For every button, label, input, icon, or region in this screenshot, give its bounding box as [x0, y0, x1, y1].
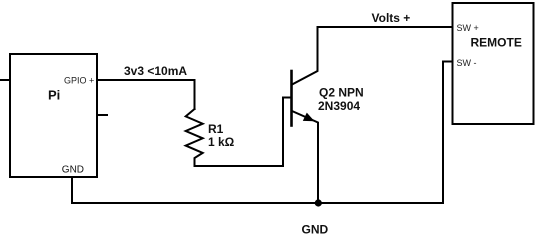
- Pi left pin stub: [1, 79, 10, 81]
- wire SW- down to ground rail: [443, 62, 453, 204]
- svg-text:Volts +: Volts +: [372, 11, 411, 25]
- svg-text:1 kΩ: 1 kΩ: [208, 135, 235, 149]
- svg-text:REMOTE: REMOTE: [471, 36, 522, 50]
- svg-text:GPIO +: GPIO +: [64, 76, 94, 86]
- wire resistor to transistor base: [195, 98, 292, 167]
- transistor Q2 emitter arrowhead: [303, 113, 315, 122]
- REMOTE box: [453, 3, 534, 124]
- resistor R1: [186, 109, 203, 166]
- wire GPIO to resistor R1: [97, 80, 195, 109]
- ground rail wire from Pi GND: [72, 177, 443, 203]
- svg-text:GND: GND: [62, 165, 84, 176]
- Pi right pin stub: [97, 114, 107, 116]
- svg-text:3v3 <10mA: 3v3 <10mA: [124, 64, 187, 78]
- svg-text:Pi: Pi: [48, 88, 60, 103]
- junction node at emitter and ground rail: [315, 199, 322, 206]
- transistor Q2 emitter lead with arrow: [292, 111, 318, 203]
- transistor Q2 collector lead: [292, 27, 318, 85]
- Pi module box U? (Raspberry Pi): [10, 54, 97, 177]
- svg-text:Q2 NPN: Q2 NPN: [319, 86, 364, 100]
- svg-text:R1: R1: [208, 122, 224, 136]
- svg-text:GND: GND: [302, 223, 329, 235]
- svg-text:2N3904: 2N3904: [318, 99, 360, 113]
- svg-text:SW +: SW +: [457, 23, 479, 33]
- svg-text:SW -: SW -: [457, 58, 477, 68]
- transistor Q2 base bar: [290, 71, 293, 126]
- wire Volts+ rail collector to REMOTE: [318, 26, 453, 28]
